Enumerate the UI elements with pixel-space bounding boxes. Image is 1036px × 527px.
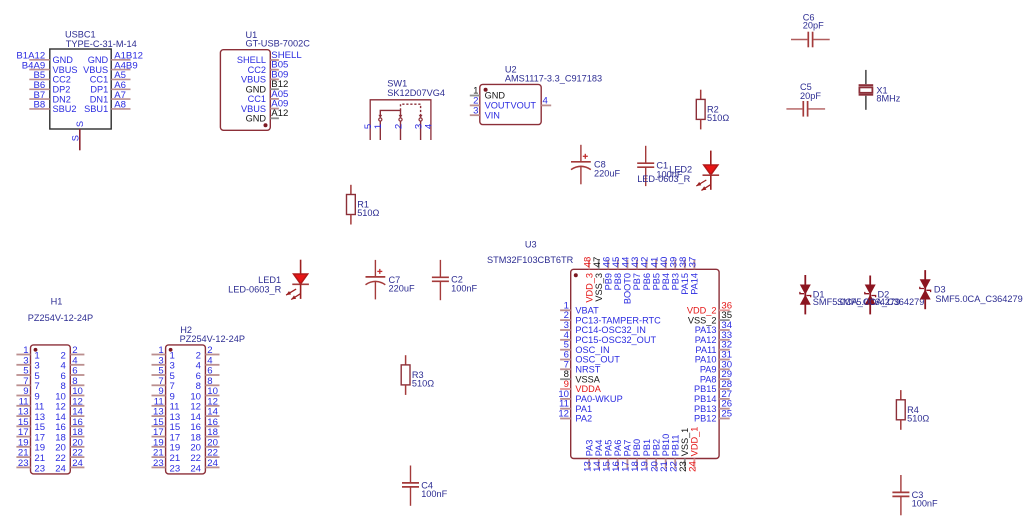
U2 body [480, 84, 541, 124]
U3 pin 30 (PA9) [700, 359, 732, 374]
C2 bottom lead wire [439, 281, 441, 300]
svg-text:220uF: 220uF [389, 284, 415, 294]
svg-text:VBUS: VBUS [241, 104, 266, 114]
svg-text:1: 1 [373, 124, 384, 129]
U3 pin 4 (PC15-OSC32_OUT) [560, 330, 656, 345]
svg-text:VSSA: VSSA [575, 374, 600, 384]
USBC1 pin A4B9 (VBUS) right [83, 60, 138, 74]
U2 pin 2 (VOUT) [470, 96, 511, 111]
svg-text:37: 37 [688, 257, 699, 268]
TVS diode D2 SMF5.0CA_C364279 [837, 276, 924, 315]
svg-text:PA10: PA10 [695, 355, 717, 365]
H1 pin 14 [55, 407, 84, 423]
LED1 top lead wire [300, 260, 302, 274]
U3 pin 16 (PA6) [611, 440, 623, 472]
svg-text:PB7: PB7 [632, 273, 642, 290]
U3 pin 46 (PB9) [601, 257, 613, 291]
U3 pin 27 (PB14) [694, 389, 732, 404]
capacitor C5 20pF [786, 82, 825, 116]
D3 lead wire [924, 270, 926, 309]
U3 pin 2 (PC13-TAMPER-RTC) [560, 310, 661, 325]
U3 pin 12 (PA2) [558, 409, 592, 424]
capacitor C1 100nF [637, 146, 683, 186]
U3 pin 37 (PA14) [688, 257, 700, 295]
U3 pin 5 (OSC_IN) [560, 340, 610, 355]
H1 body [31, 345, 71, 474]
H1 pin 17 [16, 427, 45, 443]
C8 straight plate [571, 161, 591, 163]
svg-text:NRST: NRST [575, 365, 600, 375]
svg-text:SBU2: SBU2 [53, 104, 77, 114]
svg-text:PB1: PB1 [642, 439, 652, 456]
U2 pin 1 (GND) [470, 86, 506, 101]
svg-text:3: 3 [473, 105, 478, 116]
svg-text:PB3: PB3 [671, 273, 681, 290]
svg-text:PA15: PA15 [680, 273, 690, 295]
svg-text:CC2: CC2 [53, 75, 71, 85]
LED1 light arrow [291, 294, 300, 300]
LED2 bottom lead wire [710, 175, 712, 190]
svg-text:PB2: PB2 [651, 439, 661, 456]
svg-text:AMS1117-3.3_C917183: AMS1117-3.3_C917183 [505, 74, 602, 84]
svg-text:23: 23 [34, 463, 45, 474]
D1 lead wire [804, 275, 806, 314]
svg-text:CC2: CC2 [248, 65, 266, 75]
svg-text:OSC_IN: OSC_IN [575, 345, 609, 355]
C4 bottom lead wire [410, 487, 412, 506]
C4 plates [402, 482, 419, 484]
SW1 body bracket [370, 100, 431, 140]
H1 pin 18 [55, 427, 84, 443]
svg-text:PB8: PB8 [613, 273, 623, 290]
U3 pin 7 (NRST) [560, 359, 601, 374]
svg-text:24: 24 [55, 463, 66, 474]
U3 pin 47 (VSS_3) [592, 257, 604, 302]
D1 lower triangle [800, 295, 811, 305]
U3 pin 8 (VSSA) [560, 369, 601, 384]
LED2 triangle [704, 165, 718, 175]
capacitor C4 100nF [402, 466, 448, 506]
U3 pin 26 (PB13) [694, 399, 732, 414]
U3 pin 13 (PA3) [582, 440, 594, 472]
X1 plates [859, 84, 874, 86]
svg-text:VSS_1: VSS_1 [680, 428, 690, 457]
X1 top lead wire [865, 70, 867, 84]
H2 pin 21 [152, 448, 181, 464]
U3 pin 33 (PA12) [695, 330, 732, 345]
svg-text:DP1: DP1 [90, 85, 108, 95]
R1 bottom lead wire [350, 215, 352, 225]
H2 pin 18 [190, 427, 219, 443]
svg-text:VSS_2: VSS_2 [688, 315, 717, 325]
U3 body [571, 269, 719, 458]
svg-text:PA2: PA2 [575, 414, 592, 424]
U1 pin B12 (GND) [246, 79, 289, 94]
LED2 light arrow [701, 185, 710, 191]
U3 pin 19 (PB1) [640, 439, 652, 472]
USBC1 pin A8 (SBU1) right [84, 100, 130, 114]
U3 pin 6 (OSC_OUT) [560, 350, 620, 365]
svg-text:DN2: DN2 [53, 94, 71, 104]
U3 pin 44 (BOOT0) [621, 256, 633, 304]
D1 breakdown bar [800, 292, 811, 297]
switch SW1 SK12D07VG4 [363, 79, 445, 141]
X1 body [859, 87, 872, 92]
H1 pin 24 [55, 458, 84, 474]
C6 lead wires [791, 39, 807, 41]
R1 top lead wire [350, 185, 352, 195]
H1 pin 8 [61, 376, 85, 392]
H2 pin 17 [152, 427, 181, 443]
R3 body [401, 365, 410, 385]
svg-text:PB12: PB12 [694, 414, 716, 424]
H1 pin 3 [16, 355, 39, 371]
svg-text:LED1: LED1 [258, 275, 281, 285]
U3 pin 21 (PB10) [659, 434, 671, 472]
H2 pin 6 [196, 366, 220, 382]
H2 pin 13 [152, 407, 181, 423]
C1 bottom lead wire [645, 167, 647, 186]
svg-text:U3: U3 [525, 239, 537, 249]
svg-text:PB10: PB10 [661, 434, 671, 456]
SW1 contact arrowhead [419, 115, 423, 118]
H2 pin 2 [196, 345, 220, 361]
LED2 cathode bar [703, 174, 720, 176]
U3 pin 48 (VDD_3) [582, 257, 594, 303]
svg-text:PA0-WKUP: PA0-WKUP [575, 394, 622, 404]
svg-text:PA9: PA9 [700, 365, 717, 375]
U3 pin 24 (VDD_1) [688, 427, 700, 472]
svg-text:23: 23 [18, 458, 29, 469]
U1 pin B05 (CC2) [248, 60, 289, 75]
svg-text:100nF: 100nF [421, 489, 447, 499]
H2 pin 5 [152, 366, 175, 382]
connector H2 PZ254V-12-24P [152, 325, 245, 474]
svg-text:20pF: 20pF [803, 21, 824, 31]
USBC1 body [50, 49, 111, 129]
polarized capacitor C8 220uF [571, 145, 620, 185]
svg-text:PC13-TAMPER-RTC: PC13-TAMPER-RTC [575, 315, 661, 325]
svg-text:23: 23 [170, 463, 181, 474]
C3 bottom lead wire [900, 496, 902, 515]
svg-text:GND: GND [246, 114, 267, 124]
svg-text:PA13: PA13 [695, 325, 717, 335]
LED1 light arrow [286, 289, 296, 295]
USBC1 pin A5 (CC1) right [90, 70, 131, 84]
H1 pin 20 [55, 437, 84, 453]
U3 pin 42 (PB6) [640, 257, 652, 291]
U3 pin 14 (PA4) [592, 440, 604, 472]
H2 pin 10 [190, 386, 219, 402]
U3 pin 39 (PB3) [668, 257, 680, 291]
svg-text:OSC_OUT: OSC_OUT [575, 355, 620, 365]
SW1 contact pin wire [420, 121, 422, 140]
H1 pin 6 [61, 366, 85, 382]
C7 plus sign [379, 269, 381, 274]
svg-text:VBUS: VBUS [241, 75, 266, 85]
H2 body [166, 345, 206, 474]
H2 pin 16 [190, 417, 219, 433]
H2 pin 4 [196, 355, 220, 371]
U1 pin B09 (VBUS) [241, 69, 288, 84]
svg-text:PB5: PB5 [651, 273, 661, 290]
svg-text:STM32F103CBT6TR: STM32F103CBT6TR [487, 255, 574, 265]
svg-text:510Ω: 510Ω [907, 414, 929, 424]
C4 top lead wire [410, 466, 412, 483]
svg-text:PA1: PA1 [575, 404, 592, 414]
svg-text:PC14-OSC32_IN: PC14-OSC32_IN [575, 325, 645, 335]
H1 pin 13 [16, 407, 45, 423]
svg-text:510Ω: 510Ω [412, 379, 434, 389]
svg-text:VDD_1: VDD_1 [690, 427, 700, 457]
C8 top lead wire [580, 145, 582, 162]
svg-text:24: 24 [688, 461, 699, 472]
svg-text:SHELL: SHELL [237, 55, 266, 65]
svg-text:GT-USB-7002C: GT-USB-7002C [246, 38, 311, 48]
H1 pin 16 [55, 417, 84, 433]
svg-text:PC15-OSC32_OUT: PC15-OSC32_OUT [575, 335, 656, 345]
svg-text:PZ254V-12-24P: PZ254V-12-24P [180, 334, 245, 344]
USBC1 pin B8 (SBU2) left [29, 100, 76, 114]
USBC1 pin A1B12 (GND) right [88, 51, 143, 65]
U3 pin 9 (VDDA) [560, 379, 602, 394]
U3 pin 40 (PB4) [659, 257, 671, 291]
USBC1 pin A6 (DP1) right [90, 80, 130, 94]
D2 breakdown bar [865, 292, 876, 297]
svg-text:PA3: PA3 [584, 440, 594, 457]
svg-text:GND: GND [53, 55, 74, 65]
svg-text:PB0: PB0 [632, 439, 642, 456]
U3 pin 31 (PA10) [695, 350, 732, 365]
C3 top lead wire [900, 475, 902, 492]
H1 pin 12 [55, 396, 84, 412]
D2 upper triangle [865, 285, 876, 295]
H2 pin 12 [190, 396, 219, 412]
resistor R3 510&#937; [401, 355, 434, 395]
SW1 contact circle [379, 118, 382, 121]
D2 lead wire [869, 276, 871, 315]
svg-text:VBAT: VBAT [575, 306, 599, 316]
C8 plus sign [584, 154, 586, 159]
C2 plates [432, 276, 449, 278]
H2 pin 8 [196, 376, 220, 392]
svg-text:PB14: PB14 [694, 394, 716, 404]
C5 plates [802, 101, 804, 117]
H1 pin 1 [16, 345, 39, 361]
svg-text:PA6: PA6 [613, 440, 623, 457]
D1 upper triangle [800, 285, 811, 295]
H1 pin 22 [55, 448, 84, 464]
U1 junction dot [264, 123, 268, 127]
svg-text:DP2: DP2 [53, 85, 71, 95]
C7 straight plate [366, 276, 386, 278]
U3 pin 29 (PA8) [700, 369, 732, 384]
TVS diode D3 SMF5.0CA_C364279 [920, 270, 1023, 309]
svg-text:220uF: 220uF [594, 168, 620, 178]
LED2 light arrow [696, 180, 706, 186]
H1 pin 11 [16, 396, 44, 412]
USBC1 shield pin S wire [70, 121, 85, 150]
U1 pin A05 (CC1) [248, 89, 289, 104]
svg-text:PA11: PA11 [695, 345, 716, 355]
svg-text:24: 24 [207, 458, 218, 469]
U3 pin 41 (PB5) [649, 257, 661, 291]
R3 bottom lead wire [405, 385, 407, 395]
LED2 top lead wire [710, 151, 712, 165]
H2 pin 20 [190, 437, 219, 453]
U3 pin 32 (PA11) [695, 340, 732, 355]
svg-text:PA8: PA8 [700, 374, 717, 384]
svg-text:H1: H1 [51, 297, 63, 307]
svg-text:510Ω: 510Ω [357, 208, 379, 218]
TVS diode D1 SMF5.0CA_C364279 [800, 275, 900, 314]
MCU U3 STM32F103CBT6TR [487, 239, 733, 471]
U3 pin 35 (VSS_2) [688, 310, 732, 325]
H2 pin 22 [190, 448, 219, 464]
svg-text:VDD_3: VDD_3 [584, 273, 594, 303]
R2 body [696, 99, 705, 119]
USBC1 pin B1A12 (GND) left [16, 51, 73, 65]
U3 pin 17 (PA7) [621, 440, 633, 472]
C7 bottom lead wire [374, 281, 376, 299]
svg-text:GND: GND [246, 84, 267, 94]
USBC1 pin B7 (DN2) left [29, 90, 71, 104]
svg-text:2: 2 [393, 124, 404, 129]
svg-text:B8: B8 [33, 100, 45, 111]
svg-text:VDDA: VDDA [575, 384, 601, 394]
H2 pin 11 [152, 396, 180, 412]
svg-text:GND: GND [88, 55, 109, 65]
C2 top lead wire [439, 260, 441, 277]
U1 pin SHELL (SHELL) [237, 50, 302, 65]
H2 pin 1 [152, 345, 175, 361]
svg-text:24: 24 [72, 458, 83, 469]
svg-text:LED-0603_R: LED-0603_R [637, 174, 690, 184]
svg-text:4: 4 [543, 96, 549, 107]
USBC1 pin B6 (DP2) left [29, 80, 70, 94]
U3 pin 36 (VDD_2) [687, 300, 732, 315]
D2 lower triangle [865, 295, 876, 305]
U3 pin 20 (PB2) [649, 439, 661, 472]
X1 bottom lead wire [865, 96, 867, 110]
D3 lower triangle [920, 289, 931, 299]
C8 bottom lead wire [580, 166, 582, 184]
U3 pin 10 (PA0-WKUP) [558, 389, 622, 404]
capacitor C3 100nF [892, 475, 938, 515]
svg-text:BOOT0: BOOT0 [623, 273, 633, 304]
svg-text:24: 24 [190, 463, 201, 474]
connector H1 PZ254V-12-24P [16, 297, 93, 475]
U3 pin 23 (VSS_1) [678, 428, 690, 472]
U2 junction dot [484, 88, 488, 92]
svg-text:PB11: PB11 [671, 435, 681, 457]
svg-text:PA5: PA5 [604, 440, 614, 457]
svg-text:DN1: DN1 [90, 94, 108, 104]
U3 pin 28 (PB15) [694, 379, 732, 394]
D3 breakdown bar [920, 287, 931, 292]
H1 pin 19 [16, 437, 45, 453]
capacitor C6 20pF [791, 12, 830, 47]
svg-text:SBU1: SBU1 [84, 104, 108, 114]
R4 bottom lead wire [900, 420, 902, 430]
C1 plates [637, 162, 654, 164]
D3 upper triangle [920, 279, 931, 289]
U3 pin 11 (PA1) [559, 399, 592, 414]
U3 pin 22 (PB11) [668, 435, 680, 472]
svg-text:PB15: PB15 [694, 384, 716, 394]
LED LED2 LED-0603_R [696, 151, 719, 191]
R3 top lead wire [405, 355, 407, 365]
svg-text:100nF: 100nF [451, 284, 477, 294]
svg-text:VBUS: VBUS [83, 65, 108, 75]
USBC1 pin A7 (DN1) right [90, 90, 131, 104]
polarized capacitor C7 220uF [366, 260, 415, 300]
U3 pin 3 (PC14-OSC32_IN) [560, 320, 646, 335]
LED LED1 LED-0603_R [286, 260, 309, 300]
U1 body [220, 50, 270, 131]
C7 curved plate [366, 281, 386, 284]
svg-text:A8: A8 [114, 100, 126, 111]
H1 pin 21 [16, 448, 45, 464]
svg-text:23: 23 [153, 458, 164, 469]
H1 pin 5 [16, 366, 39, 382]
svg-text:LED-0603_R: LED-0603_R [228, 284, 281, 294]
U3 pin 45 (PB8) [611, 257, 623, 291]
IC U1 GT-USB-7002C [220, 30, 310, 130]
svg-text:TYPE-C-31-M-14: TYPE-C-31-M-14 [66, 39, 137, 49]
U1 pin A09 (VBUS) [241, 99, 288, 114]
SW1 contact circle [419, 118, 422, 121]
SW1 alternate bar dashed [401, 104, 421, 117]
svg-text:PB4: PB4 [661, 273, 671, 290]
C3 plates [892, 491, 909, 493]
H2 pin-1 dot [169, 348, 173, 352]
svg-text:SK12D07VG4: SK12D07VG4 [387, 88, 445, 98]
SW1 contact arrowhead [378, 115, 382, 118]
svg-text:A12: A12 [271, 108, 288, 119]
capacitor C2 100nF [432, 260, 478, 300]
LED1 bottom lead wire [300, 284, 302, 299]
H1 pin 9 [16, 386, 39, 402]
svg-text:S: S [75, 121, 85, 127]
H2 pin 9 [152, 386, 175, 402]
svg-text:PA12: PA12 [695, 335, 717, 345]
svg-text:SMF5.0CA_C364279: SMF5.0CA_C364279 [837, 297, 924, 307]
C5 lead wires [786, 108, 802, 110]
H1 pin 2 [61, 345, 85, 361]
svg-text:PA7: PA7 [623, 440, 633, 457]
C8 curved plate [571, 166, 591, 169]
connector USBC1 TYPE-C-31-M-14 [16, 30, 143, 151]
R4 body [896, 400, 905, 420]
SW1 contact circle [399, 118, 402, 121]
crystal X1 8MHz [859, 70, 901, 110]
SW1 contact arrowhead [399, 115, 403, 118]
svg-text:VSS_3: VSS_3 [594, 273, 604, 302]
SW1 common bar solid [380, 110, 400, 117]
LED1 triangle [294, 274, 308, 284]
svg-text:PB13: PB13 [694, 404, 716, 414]
R1 body [347, 195, 356, 215]
H2 pin 24 [190, 458, 219, 474]
svg-text:100nF: 100nF [912, 499, 938, 509]
U3 pin 38 (PA15) [678, 257, 690, 295]
C1 top lead wire [645, 146, 647, 163]
H1 pin-1 dot [34, 348, 38, 352]
svg-text:SMF5.0CA_C364279: SMF5.0CA_C364279 [935, 294, 1022, 304]
H2 pin 3 [152, 355, 175, 371]
R4 top lead wire [900, 390, 902, 400]
